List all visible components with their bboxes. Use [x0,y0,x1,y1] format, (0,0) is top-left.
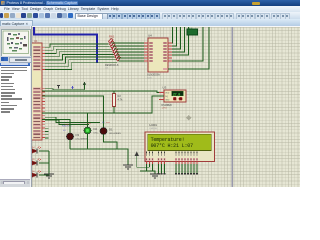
wire D3 cathode to rail [69,140,71,149]
svg-text:RN1: RN1 [109,35,115,39]
svg-text:GND: GND [165,100,170,102]
svg-text:DS18B20: DS18B20 [162,104,173,107]
wire D4-D6 rail [39,151,49,175]
mcu U1 port2 pin boxes [33,88,45,113]
stepper motor coil (green) [187,28,198,35]
svg-text:2003: 2003 [147,78,152,80]
menu bar [0,6,300,13]
lcd pin stubs [147,162,198,165]
resistor R2 [113,91,124,113]
led D4 [32,147,41,154]
svg-text:R2: R2 [118,94,122,98]
led D1 [100,121,121,135]
lcd screen [148,134,211,150]
wire D2 cathode to rail [87,134,89,149]
wire to LED D2 [87,113,89,127]
svg-text:4.7k: 4.7k [118,98,124,102]
svg-text:+27.0: +27.0 [162,107,168,109]
wire DQ net U3 to mcu [42,96,164,113]
led D3 [63,123,88,141]
svg-text:D1: D1 [109,128,113,132]
wire P2.2 to LED D1 [42,96,104,127]
led D5 [32,159,41,166]
wire P3.2 staircase [45,120,89,124]
wire VSS VEE to ground [140,164,155,174]
mcu U1 port1 pin boxes [33,46,45,71]
sheet border [232,27,234,188]
svg-text:D6: D6 [32,171,35,173]
svg-text:D4: D4 [32,147,35,149]
resistor pack RN1 [105,35,121,70]
led D2 (lit) [84,122,100,135]
wires U4 outputs staircase to top [168,27,209,69]
svg-text:▲▲: ▲▲ [87,122,91,125]
svg-text:007°C H:21 L:07: 007°C H:21 L:07 [151,143,193,149]
junction R2 top [113,90,115,92]
svg-text:LED-GREEN: LED-GREEN [109,133,121,135]
overview window [1,29,31,58]
origin marker [71,86,74,89]
wire P2.1 to U3 VDD [42,91,159,93]
wire P3.1 staircase [45,117,100,122]
mcu U1 port3 pin boxes [33,114,45,139]
combobox Base Design [75,13,108,21]
svg-text:LM016L: LM016L [150,128,159,130]
title bar [0,0,300,6]
left panel [0,26,32,187]
ground (LED rail) [123,165,133,169]
hscrollbar [0,179,30,185]
temperature sensor U3 DS18B20 [162,86,187,110]
svg-text:U3: U3 [163,86,167,90]
svg-text:▲▲: ▲▲ [65,123,69,126]
wires RN1 to U4 [112,43,145,61]
cathode rail wire [70,149,128,165]
led D6 [32,171,41,178]
devices header [0,56,31,62]
schematic area [31,26,301,188]
lcd LCD1 body [145,132,215,162]
svg-text:RESPACK-8: RESPACK-8 [105,64,119,67]
lcd LCD1 labels [150,123,159,130]
svg-text:LCD1: LCD1 [150,123,158,127]
wire bundle P0 to RN1 staircase [45,44,117,70]
svg-text:10k: 10k [105,68,108,70]
ground (LCD) [150,174,160,178]
svg-text:27.0: 27.0 [173,93,180,97]
ground (D4-D6) [44,174,54,178]
wire D1 cathode jog to rail [104,135,118,150]
svg-text:D3: D3 [76,133,80,137]
bus AD[0..7] [34,27,97,63]
power arrow (mid) [83,82,86,86]
mcu P3 stub wires [45,128,49,138]
svg-text:▲▲: ▲▲ [106,121,110,124]
svg-text:U4: U4 [148,34,152,38]
terminal mark [57,86,60,89]
svg-text:LED-..: LED-.. [94,133,100,135]
svg-text:0.0: 0.0 [63,130,67,132]
power +5V arrow terminal [135,152,150,168]
lcd pin names [146,151,198,155]
lcd pin wires [158,164,198,174]
svg-text:U1: U1 [34,39,38,43]
pin stubs U3 [159,93,164,100]
svg-text:D5: D5 [32,159,35,161]
toolbar [0,12,300,19]
svg-text:LED-GREEN: LED-GREEN [76,139,88,141]
mcu U1 body [21,39,42,140]
device list [0,63,30,180]
svg-text:VDD: VDD [165,93,170,95]
junction DQ/R2 [113,112,115,114]
driver U4 ULN2003A [144,34,172,80]
tab bar [0,19,300,27]
marker diamond [186,115,191,120]
svg-text:ULN2003A: ULN2003A [147,73,160,77]
wire VDD to +5V [149,164,151,167]
wire to LED D3 [42,119,70,133]
lcd pin number boxes [145,158,198,161]
svg-text:D2: D2 [94,127,98,131]
wire P2.0 staircase [45,85,85,90]
